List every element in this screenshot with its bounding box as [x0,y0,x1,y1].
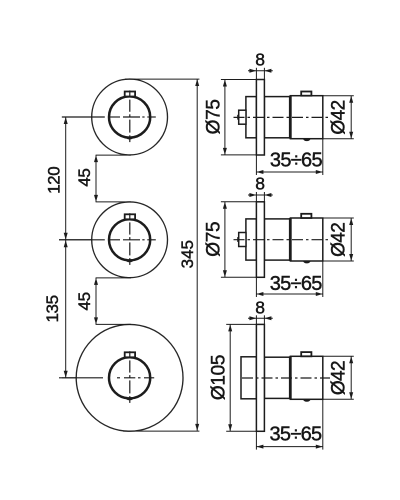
centerline vertical circle 1 [129,90,131,96]
body right of plate [264,357,290,398]
svg-text:Ø42: Ø42 [328,223,349,257]
dimension line 45 lower [95,278,97,325]
handle index tab 2 [125,214,135,219]
inlet screw mark [237,237,239,242]
svg-text:Ø105: Ø105 [209,355,230,400]
extension line at circle3 center [62,377,77,379]
handle inner circle 2 [109,219,150,260]
extension line 35-65 left [255,277,257,297]
handle inner circle 3 [109,357,150,398]
svg-text:Ø75: Ø75 [203,222,224,257]
dimension line 8 [248,70,273,72]
svg-text:8: 8 [255,174,264,194]
svg-text:35÷65: 35÷65 [270,273,323,295]
dimension line 135 [65,240,67,378]
dimension line Ø75 [224,80,226,155]
extension lines diameter 42 [323,217,354,219]
svg-text:135: 135 [43,295,62,322]
dimension line 8 [248,194,273,196]
plate thickness extension lines [255,315,257,324]
handle bottom mark [303,261,311,264]
extension lines diameter 42 [323,355,354,357]
extension lines Ø105 [226,323,256,325]
wall plate profile [256,80,264,156]
valve centerline [234,239,331,241]
svg-text:120: 120 [45,167,64,194]
extension line 345 bottom [123,430,199,432]
extension line gap2 bottom [96,323,131,325]
extension line 35-65 right [322,261,324,297]
handle top tab [301,92,311,96]
extension lines diameter 42 [323,95,354,97]
dimension line 35-65 [256,293,322,295]
handle top tab [301,214,311,218]
svg-text:Ø42: Ø42 [328,100,349,134]
handle index tab 1 [125,92,135,97]
centerline horizontal circle 1 [62,116,105,118]
centerline vertical circle 2 [129,213,131,219]
handle index tab 3 [125,352,135,357]
svg-text:Ø42: Ø42 [328,361,349,395]
inlet plug [239,110,246,124]
extension line gap2 top [96,277,131,279]
svg-text:35÷65: 35÷65 [270,150,323,172]
escutcheon outer circle 1 [92,79,168,155]
svg-text:45: 45 [75,169,94,187]
handle bottom mark 3 [125,397,134,400]
valve body left block [246,219,257,260]
handle cylinder [290,356,322,399]
handle cylinder [290,96,322,139]
inlet plug [239,233,246,247]
extension line 35-65 right [322,399,324,449]
dimension line 45 upper [95,155,97,202]
valve body left block [246,97,257,138]
plate thickness extension lines [255,68,257,80]
extension line at circle2 center [59,239,92,241]
svg-text:8: 8 [255,50,264,70]
handle inner circle 1 [109,96,150,137]
extension line 35-65 left [255,155,257,175]
handle cylinder [290,218,322,261]
body right of plate [264,97,290,138]
extension line 35-65 right [322,139,324,175]
handle bottom mark 1 [125,137,134,140]
centerline horizontal circle 2 [59,239,105,241]
centerline vertical circle 3 [129,351,131,357]
extension lines Ø75 [221,79,257,81]
handle bottom mark [303,139,311,142]
escutcheon outer circle 3 [76,324,183,431]
extension lines Ø75 [221,201,257,203]
dimension line 35-65 [256,171,322,173]
dimension line Ø75 [224,202,226,277]
body/handle divider [289,218,292,261]
dimension line diameter 42 [350,96,352,139]
escutcheon outer circle 2 [92,202,168,278]
valve centerline [234,116,331,118]
extension line gap1 top [96,154,131,156]
wall plate profile [256,324,264,431]
svg-text:45: 45 [75,292,94,310]
dimension line diameter 42 [350,356,352,399]
plate thickness extension lines [255,192,257,202]
handle bottom mark 2 [125,259,134,262]
extension line 35-65 left [255,431,257,449]
wall plate profile [256,202,264,277]
valve centerline [242,377,330,379]
handle top tab [301,352,311,356]
svg-text:Ø75: Ø75 [203,99,224,134]
body right of plate [264,219,290,260]
body/handle divider [289,96,292,139]
body/handle divider [289,356,292,399]
dimension line Ø105 [229,324,231,431]
valve body left block [241,357,256,399]
centerline horizontal circle 3 [59,377,103,379]
extension line at circle1 center [62,116,92,118]
handle bottom mark [303,399,311,402]
dimension line 120 [65,117,67,240]
svg-text:345: 345 [178,240,197,268]
svg-text:35÷65: 35÷65 [270,423,323,445]
extension line gap1 bottom [96,201,131,203]
dimension line diameter 42 [350,218,352,261]
extension line 345 top [125,78,199,80]
dimension line 345 [196,79,198,431]
svg-text:8: 8 [255,298,264,318]
dimension line 35-65 [256,446,322,448]
inlet screw mark [237,115,239,120]
dimension line 8 [248,317,273,319]
